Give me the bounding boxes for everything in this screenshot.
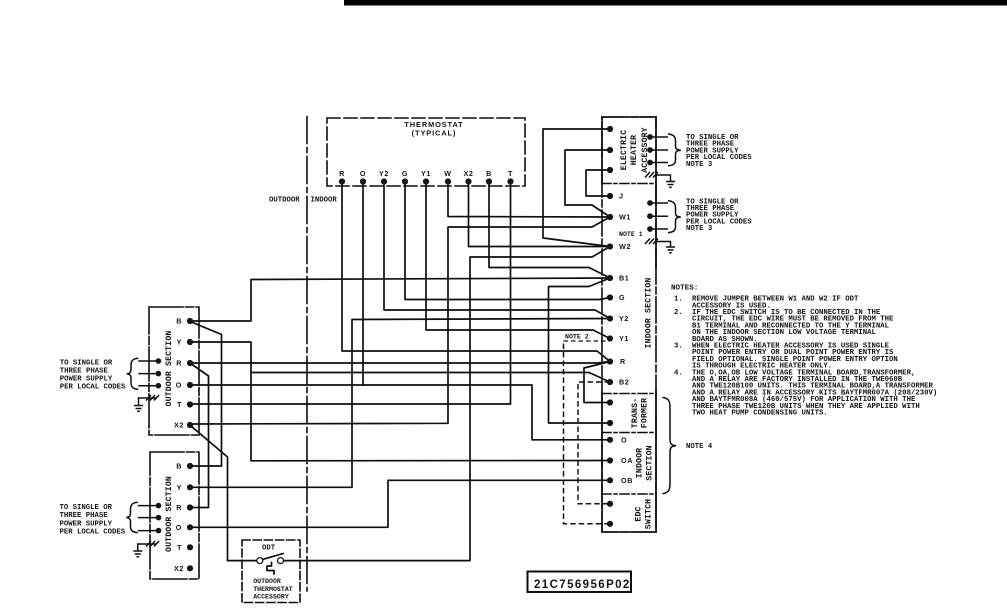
svg-text:TO SINGLE OR: TO SINGLE OR (60, 504, 113, 512)
svg-text:TRANS-: TRANS- (631, 398, 640, 428)
svg-text:T: T (508, 169, 513, 178)
svg-text:Y2: Y2 (379, 169, 389, 178)
svg-text:OUTDOOR SECTION: OUTDOOR SECTION (165, 476, 174, 552)
svg-text:1.: 1. (674, 296, 683, 304)
svg-text:NOTE 2: NOTE 2 (565, 334, 589, 341)
svg-text:G: G (402, 169, 408, 178)
svg-text:T: T (177, 543, 182, 552)
svg-text:ODT: ODT (262, 545, 276, 553)
svg-text:3.: 3. (674, 343, 683, 351)
svg-text:THREE PHASE: THREE PHASE (60, 512, 109, 520)
svg-text:Y1: Y1 (421, 169, 431, 178)
svg-text:X2: X2 (464, 169, 474, 178)
svg-text:Y1: Y1 (619, 334, 629, 343)
svg-text:B2: B2 (619, 378, 629, 387)
svg-text:FORMER: FORMER (641, 398, 650, 428)
svg-text:W: W (444, 169, 451, 178)
svg-text:Y2: Y2 (619, 314, 629, 323)
svg-text:X2: X2 (174, 421, 184, 430)
svg-text:ELECTRIC: ELECTRIC (620, 130, 629, 171)
svg-text:POWER SUPPLY: POWER SUPPLY (60, 376, 113, 384)
svg-text:O: O (176, 523, 182, 532)
svg-text:R: R (620, 357, 626, 366)
svg-text:W1: W1 (619, 213, 631, 222)
svg-text:2.: 2. (674, 309, 683, 317)
svg-text:O: O (621, 435, 627, 444)
svg-text:ACCESSORY: ACCESSORY (641, 127, 650, 173)
svg-text:X2: X2 (174, 564, 184, 573)
svg-text:R: R (176, 359, 182, 368)
svg-text:B: B (176, 317, 182, 326)
svg-text:W2: W2 (619, 242, 631, 251)
svg-text:OUTDOOR: OUTDOOR (269, 197, 300, 205)
svg-text:PER LOCAL CODES: PER LOCAL CODES (60, 384, 126, 392)
svg-text:EDC: EDC (635, 506, 644, 521)
svg-text:TO SINGLE OR: TO SINGLE OR (60, 359, 113, 367)
svg-text:ACCESSORY: ACCESSORY (253, 594, 289, 601)
svg-text:OUTDOOR SECTION: OUTDOOR SECTION (165, 331, 174, 407)
svg-text:PER LOCAL CODES: PER LOCAL CODES (60, 528, 126, 536)
svg-text:INDOOR: INDOOR (311, 197, 338, 205)
svg-text:Y: Y (177, 338, 182, 347)
svg-text:TWO HEAT PUMP CONDENSING UNITS: TWO HEAT PUMP CONDENSING UNITS. (692, 410, 828, 418)
svg-text:OB: OB (621, 476, 633, 485)
svg-text:NOTES:: NOTES: (671, 285, 698, 293)
svg-text:SECTION: SECTION (645, 445, 654, 480)
svg-text:THREE PHASE: THREE PHASE (60, 367, 109, 375)
svg-text:THERMOSTAT: THERMOSTAT (253, 586, 293, 593)
svg-text:T: T (177, 400, 182, 409)
svg-text:NOTE 4: NOTE 4 (686, 443, 713, 451)
svg-text:NOTE 1: NOTE 1 (619, 231, 643, 238)
svg-text:NOTE 3: NOTE 3 (686, 161, 713, 169)
svg-text:4.: 4. (674, 369, 683, 377)
svg-text:OUTDOOR: OUTDOOR (253, 578, 281, 585)
svg-text:B: B (486, 169, 492, 178)
svg-text:B: B (176, 462, 182, 471)
svg-text:OA: OA (621, 456, 633, 465)
svg-text:(TYPICAL): (TYPICAL) (412, 129, 457, 138)
svg-text:G: G (619, 293, 625, 302)
svg-text:Y: Y (177, 483, 182, 492)
svg-text:NOTE 3: NOTE 3 (686, 225, 713, 233)
svg-text:INDOOR SECTION: INDOOR SECTION (644, 278, 653, 349)
svg-text:R: R (339, 169, 345, 178)
svg-text:R: R (176, 503, 182, 512)
svg-text:J: J (619, 192, 624, 201)
svg-text:POWER SUPPLY: POWER SUPPLY (60, 520, 113, 528)
svg-text:SWITCH: SWITCH (644, 499, 653, 529)
svg-text:INDOOR: INDOOR (636, 448, 645, 478)
svg-text:B1: B1 (619, 274, 629, 283)
svg-text:21C756956P02: 21C756956P02 (534, 579, 631, 591)
svg-text:O: O (360, 169, 366, 178)
svg-text:O: O (176, 381, 182, 390)
svg-text:HEATER: HEATER (630, 135, 639, 165)
